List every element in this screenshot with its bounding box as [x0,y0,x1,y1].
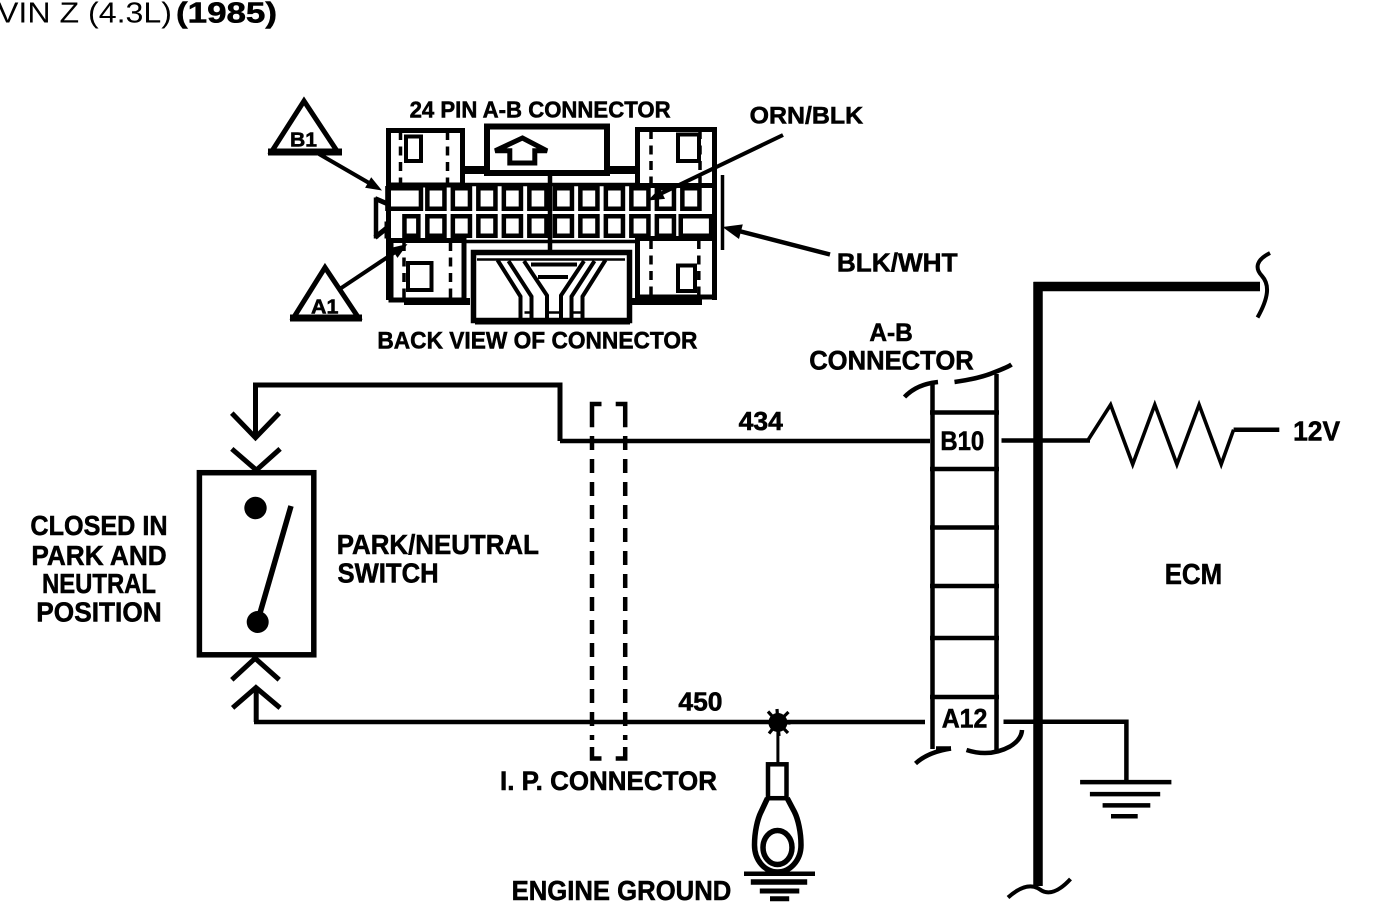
leader arrow BLK/WHT [723,224,831,254]
connector left edge [386,128,391,300]
callout triangle A1 [290,268,362,319]
svg-text:24 PIN A-B CONNECTOR: 24 PIN A-B CONNECTOR [410,97,671,123]
wire A12 down to ECM ground [1124,720,1129,783]
svg-text:A1: A1 [311,297,339,319]
connector J1 24-pin back view [375,127,723,322]
bracket mark bottom-left [916,749,952,764]
corner block top-right [638,130,715,186]
leader arrow from B1 to connector [319,154,382,191]
wire vertical above switch [253,383,258,437]
pin row 2 (12 cavities) [404,216,711,236]
bracket mark top-left [905,382,939,397]
switch contact dot top [244,497,266,519]
cell bottom partial [936,746,951,751]
cell divider 5 [930,636,999,641]
ECM boundary thick horizontal [1034,282,1261,292]
svg-text:BLK/WHT: BLK/WHT [837,248,958,278]
junction splice on wire 450 [766,709,791,736]
center divider [548,173,553,254]
wire B10 to ECM [1002,438,1091,443]
callout triangle B1 [268,101,342,152]
svg-text:NEUTRAL: NEUTRAL [42,568,156,599]
strip left edge [930,384,935,749]
wire vertical below switch [254,690,259,722]
switch contact dot bottom [247,611,269,633]
cell divider 4 [930,584,999,589]
strain relief Y pattern [477,260,625,319]
A-B connector strip [905,365,1023,764]
corner block bottom-left [391,241,464,301]
ECM boundary break squiggle bottom [1008,879,1071,898]
wire top horizontal [253,383,563,388]
park/neutral switch box [199,473,313,655]
connector bottom edge left [404,298,470,305]
svg-text:SWITCH: SWITCH [338,558,439,589]
strip right edge [994,374,999,751]
connector arrow chevron 2 (above switch) [232,449,280,470]
connector arrow chevron 3 (below switch) [232,658,279,680]
svg-text:BACK VIEW OF CONNECTOR: BACK VIEW OF CONNECTOR [377,329,697,355]
svg-text:450: 450 [678,689,722,717]
cell divider 1 (top of B10) [930,410,999,415]
svg-text:B10: B10 [940,426,984,456]
svg-text:ENGINE GROUND: ENGINE GROUND [512,875,732,904]
wire 434 horizontal [560,439,930,444]
wire from switch bottom to A12 (ckt 450) [254,690,1126,722]
svg-text:VIN Z (4.3L): VIN Z (4.3L) [0,0,172,29]
wire-entry tab left [374,198,379,239]
svg-text:CONNECTOR: CONNECTOR [809,345,974,375]
wire 450 horizontal [254,720,925,725]
wire from switch top to B10 (ckt 434) [253,383,1090,441]
svg-text:CLOSED IN: CLOSED IN [30,510,167,541]
svg-text:A-B: A-B [869,319,912,347]
svg-text:A12: A12 [942,704,988,734]
ECM ground symbol [1080,782,1171,816]
svg-text:12V: 12V [1293,416,1340,447]
bridge right of arrow box [606,166,637,174]
bracket mark top-right [955,365,1012,383]
cell divider 6 (top of A12) [930,695,999,700]
body edge below pin rows [465,240,638,244]
svg-text:I. P. CONNECTOR: I. P. CONNECTOR [500,766,717,796]
svg-text:PARK AND: PARK AND [31,540,166,571]
ECM boundary break squiggle top [1258,253,1271,318]
wire resistor to 12V [1234,427,1280,432]
corner block top-left [389,131,463,186]
connector right edge [712,127,717,300]
pin row 1 (12 cavities) [387,188,699,209]
svg-text:B1: B1 [290,130,317,152]
connector arrow chevron 4 (below switch) [233,688,281,708]
bridge left of arrow box [462,166,488,174]
cell divider 3 [930,525,999,530]
svg-text:ORN/BLK: ORN/BLK [750,102,864,129]
engine ground symbol [744,874,815,899]
I.P. connector dashed line right [616,404,626,759]
resistor (ECM pull-up) [1089,405,1234,465]
corner block bottom-right [638,239,715,298]
ring terminal crimp [768,764,787,798]
connector arrow chevron 1 (above switch) [232,413,279,438]
cell divider 2 [930,467,999,472]
I.P. connector dashed line left [592,404,602,759]
leader arrow from A1 to connector [339,244,408,290]
strain relief block [474,253,630,321]
wire junction to ring terminal [776,723,779,765]
ring terminal eye [755,798,802,872]
connector bottom edge right [627,298,702,305]
side terminal line right [721,175,725,250]
keying arrow glyph [495,138,547,163]
svg-text:ECM: ECM [1165,559,1222,591]
bracket mark bottom-right [967,730,1023,753]
switch blade [258,506,291,620]
leader arrow ORN/BLK [648,135,783,201]
wire A12 to ECM [1004,719,1127,724]
svg-text:POSITION: POSITION [36,596,161,627]
svg-text:434: 434 [739,408,784,436]
keying arrow box [487,127,607,174]
wire corner down [558,383,563,441]
svg-text:PARK/NEUTRAL: PARK/NEUTRAL [337,529,539,560]
ECM boundary thick vertical [1033,282,1043,886]
svg-text:(1985): (1985) [176,0,277,29]
body edge above pin rows [462,183,638,187]
